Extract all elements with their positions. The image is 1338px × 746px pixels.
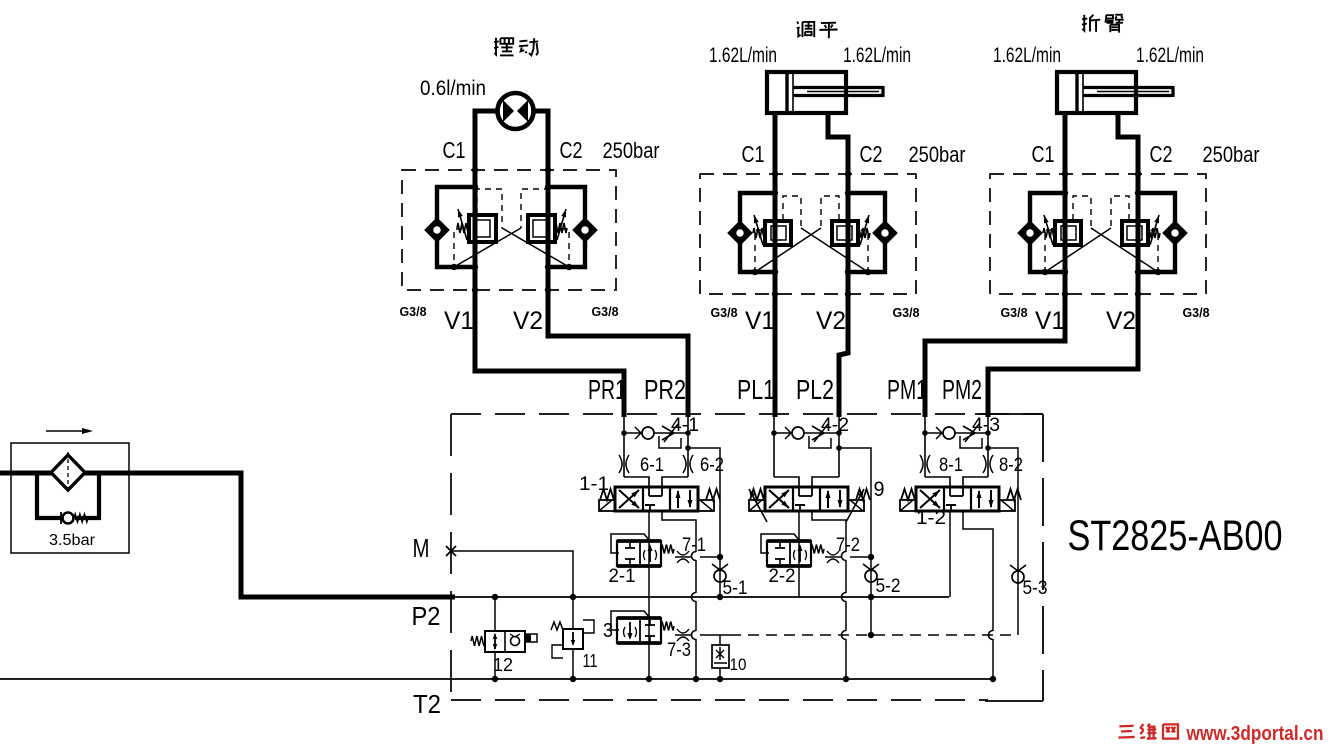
block 2 pilot passage dashed left inner	[783, 196, 801, 228]
main block dashed top edge	[451, 413, 1043, 415]
block 3 inner loop left	[1030, 193, 1065, 272]
block 2 pilot arrow right	[860, 215, 869, 245]
svg-text:8-1: 8-1	[939, 455, 963, 476]
pipe V2 to PM2	[988, 294, 1138, 417]
valve 9 proportional arrow right	[846, 489, 864, 522]
assembly 4-3 junction dots	[922, 430, 928, 436]
svg-text:1.62L/min: 1.62L/min	[709, 44, 777, 67]
valve 11 riser lines	[572, 597, 574, 629]
svg-text:G3/8: G3/8	[1001, 305, 1028, 320]
block 2 pilot cross line 2	[755, 228, 821, 272]
section 1 pilot passage dashed right outer	[561, 229, 569, 264]
main block solid right edge	[975, 413, 1043, 415]
pilot valve 11 body	[563, 629, 583, 649]
block 3 counterbalance cartridge left	[1055, 221, 1081, 245]
svg-text:5-1: 5-1	[723, 578, 748, 599]
svg-text:C1: C1	[742, 141, 765, 167]
PR1 feed line	[623, 417, 625, 477]
section 2 C2 pipe cylinder to block	[828, 113, 848, 174]
section 1 counterbalance block dashed enclosure	[402, 170, 616, 290]
block 2 pilot cross line 1	[801, 228, 868, 272]
PL1 feed line	[773, 417, 775, 477]
section 1 pilot arrow left	[458, 209, 467, 240]
svg-text:C2: C2	[860, 141, 883, 167]
valve 11 spring	[551, 622, 563, 630]
svg-text:PL1: PL1	[737, 374, 775, 405]
valve 2-2 pilot line	[761, 534, 800, 553]
relief valve of assembly 4-3	[955, 432, 988, 434]
cylinder 2 piston	[785, 72, 788, 113]
valve 1-1 parallel-arrows cell	[677, 491, 679, 508]
section 1 C1 main pipe	[473, 170, 478, 290]
filter enclosure box	[11, 443, 129, 553]
feed into valve 1-1 left	[624, 477, 649, 487]
svg-text:250bar: 250bar	[1203, 142, 1260, 167]
pressure valve 2-1 body	[617, 541, 661, 566]
section 1 pilot cross line 2	[454, 228, 521, 267]
check valve of assembly 4-2	[774, 432, 791, 434]
valve 1-2 parallel-arrows cell	[978, 491, 980, 508]
svg-text:PM2: PM2	[942, 374, 982, 405]
block 3 pilot passage dashed left inner	[1073, 196, 1091, 228]
svg-text:C2: C2	[1150, 141, 1173, 167]
check valve 5-1	[714, 570, 726, 582]
gauge line M to P2 gallery	[451, 551, 573, 597]
valve 1-2 right spring	[1007, 489, 1021, 500]
valve 12 double arrow	[494, 634, 496, 649]
svg-text:250bar: 250bar	[909, 142, 966, 167]
svg-text:7-3: 7-3	[667, 640, 691, 661]
throttle 7-1	[675, 556, 692, 558]
svg-text:1.62L/min: 1.62L/min	[1136, 44, 1204, 67]
block 2 spring right	[858, 228, 870, 238]
pipe V2 to PL2	[839, 294, 848, 417]
hydraulic motor	[498, 93, 534, 129]
valve 3 blocked cell marks	[645, 624, 655, 626]
directional control valve 1-2 body	[916, 487, 999, 511]
main block dashed bottom edge	[451, 699, 988, 701]
svg-text:C1: C1	[443, 137, 466, 163]
svg-text:PR1: PR1	[588, 374, 626, 405]
svg-text:PR2: PR2	[644, 374, 686, 405]
orifice 8-2	[983, 455, 986, 473]
valve 1-2 centre cell blocked ports	[949, 487, 951, 496]
valve 2-2 spring	[811, 545, 824, 554]
feed into valve 1-1 right	[662, 477, 688, 487]
section 1 C2 main pipe	[546, 170, 551, 290]
svg-text:M: M	[413, 533, 430, 563]
valve 2-1 blocked cell marks	[625, 547, 635, 549]
main block dashed left edge	[450, 414, 452, 700]
svg-text:P2: P2	[412, 601, 441, 631]
svg-text:G3/8: G3/8	[592, 304, 619, 319]
svg-text:G3/8: G3/8	[711, 305, 738, 320]
flow direction arrow	[46, 430, 88, 432]
block 3 pilot passage dashed left outer	[1045, 230, 1052, 269]
svg-text:11: 11	[583, 651, 598, 671]
label zhebi (Chinese: folding arm)	[1082, 15, 1084, 31]
filter bypass loop	[37, 473, 61, 518]
counterbalance valve block 2 dashed enclosure	[700, 174, 916, 294]
svg-text:G3/8: G3/8	[1183, 305, 1210, 320]
block 3 check valve left (diamond)	[1020, 223, 1040, 243]
valve 12 spring	[471, 636, 485, 646]
port M cross mark	[446, 546, 456, 556]
throttle 7-2	[825, 556, 842, 558]
bypass check valve 3.5bar	[63, 513, 74, 524]
block 3 pilot passage dashed right outer	[1151, 230, 1158, 269]
check valve of assembly 4-1	[624, 432, 641, 434]
svg-text:250bar: 250bar	[603, 138, 660, 163]
section 1 inner loop left	[437, 187, 475, 267]
valve 9 drain B with crossing jumps	[812, 511, 846, 552]
valve 1-2 left solenoid	[900, 500, 916, 511]
valve 1-1 right solenoid	[698, 500, 714, 511]
hydraulic cylinder 3 body	[1057, 72, 1136, 113]
valve 2-2 blocked cell marks	[775, 547, 785, 549]
svg-text:7-2: 7-2	[836, 535, 860, 556]
valve 12 riser lines	[494, 597, 496, 631]
svg-text:1.62L/min: 1.62L/min	[843, 44, 911, 67]
valve 9 centre cell blocked ports	[798, 487, 800, 496]
pipe V1 to PL1	[773, 294, 778, 417]
check valve of assembly 4-3	[925, 432, 942, 434]
valve 2-1 flow arrow cell	[649, 546, 651, 562]
check valve 5-2	[865, 570, 877, 582]
P2 pressure gallery	[455, 596, 949, 598]
svg-text:V2: V2	[1106, 307, 1136, 335]
block 2 pilot arrow left	[754, 215, 763, 245]
feed into valve 9 right	[812, 477, 839, 487]
svg-text:G3/8: G3/8	[400, 304, 427, 319]
valve 1-1 drain B with crossing jumps	[662, 511, 696, 552]
counterbalance valve block 3 dashed enclosure	[990, 174, 1206, 294]
svg-text:9: 9	[874, 478, 885, 501]
T2 return line	[0, 678, 995, 680]
svg-text:T2: T2	[413, 689, 441, 719]
svg-text:1-2: 1-2	[916, 508, 946, 529]
drain stub 5-2 to pilot gallery	[870, 597, 872, 635]
valve 9 right spring	[856, 489, 870, 500]
block 2 pilot passage dashed right inner	[821, 196, 839, 228]
orifice 6-1	[619, 455, 622, 473]
svg-text:3: 3	[603, 620, 613, 642]
block 3 pilot arrow left	[1044, 215, 1053, 245]
P2 riser to valve 1-2	[949, 511, 951, 597]
valve 9 left solenoid	[749, 500, 765, 511]
svg-text:6-1: 6-1	[640, 455, 664, 476]
svg-text:7-1: 7-1	[682, 535, 706, 556]
check valve 5-3	[1012, 571, 1024, 583]
block 2 spring left	[753, 228, 765, 238]
block 2 pilot passage dashed right outer	[861, 230, 868, 269]
svg-text:C1: C1	[1032, 141, 1055, 167]
section 3 C1 pipe cylinder to block	[1063, 113, 1068, 294]
valve 2-1 pilot line	[611, 534, 650, 553]
cylinder 3 piston	[1075, 72, 1078, 113]
svg-text:V2: V2	[816, 307, 846, 335]
cylinder 2 rod	[793, 86, 883, 89]
block 2 check valve right (diamond)	[875, 223, 895, 243]
svg-text:12: 12	[493, 655, 513, 675]
relief valve of assembly 4-2	[804, 432, 839, 434]
svg-text:5-3: 5-3	[1023, 578, 1048, 599]
svg-text:2-2: 2-2	[769, 566, 796, 587]
valve 12 solenoid	[525, 634, 537, 642]
svg-text:5-2: 5-2	[876, 576, 901, 597]
svg-text:www.3dportal.cn: www.3dportal.cn	[1186, 723, 1324, 745]
orifice 6-2	[683, 455, 686, 473]
valve 11 pilot flags	[552, 645, 563, 658]
block 3 pilot arrow right	[1150, 215, 1159, 245]
feed into valve 1-2 left	[925, 477, 950, 487]
svg-text:1.62L/min: 1.62L/min	[993, 44, 1061, 67]
PR2 feed line	[687, 417, 689, 477]
throttle 7-3	[675, 634, 692, 636]
block 2 counterbalance cartridge right	[832, 221, 858, 245]
PL2 feed line	[838, 417, 840, 477]
valve 1-1 crossed-arrows cell	[619, 490, 639, 508]
valve 9 drain A	[798, 511, 800, 597]
svg-text:V1: V1	[745, 307, 775, 335]
block 2 junction dots	[772, 190, 778, 196]
section 1 counterbalance cartridge left	[469, 215, 496, 242]
PM1 feed line	[924, 417, 926, 477]
svg-text:ST2825-AB00: ST2825-AB00	[1068, 512, 1283, 560]
pipe V1 to PR1	[475, 290, 624, 417]
pipe V1 to PM1	[925, 294, 1065, 417]
valve 1-2 left spring	[901, 489, 915, 500]
valve 1-1 left spring	[600, 489, 614, 500]
pressure valve 3 body	[617, 618, 661, 643]
pipe V2 to PR2	[548, 290, 688, 417]
orifice 8-1	[920, 455, 923, 473]
valve 1-1 right spring	[706, 489, 720, 500]
valve 1-1 centre cell blocked ports	[648, 487, 650, 496]
valve 9 left spring	[750, 489, 764, 500]
svg-text:4-1: 4-1	[671, 415, 699, 436]
pipe after filter to P2	[84, 473, 455, 597]
relief valve of assembly 4-1	[654, 432, 688, 434]
pilot branch line to check 5-1	[688, 448, 720, 597]
valve 11 arrow	[572, 632, 574, 644]
svg-text:3.5bar: 3.5bar	[49, 532, 96, 549]
svg-text:V2: V2	[513, 307, 543, 335]
valve 3 spring	[661, 622, 674, 631]
valve 9 proportional arrow left	[749, 489, 767, 522]
svg-text:V1: V1	[1035, 307, 1065, 335]
block 3 spring left	[1043, 228, 1055, 238]
tank gallery junction dots	[646, 676, 652, 682]
valve 3 pilot line	[611, 611, 650, 630]
assembly 4-1 junction dots	[621, 430, 627, 436]
block 3 spring right	[1148, 228, 1160, 238]
svg-text:PL2: PL2	[796, 374, 834, 405]
section 1 check valve right (diamond)	[575, 220, 595, 240]
valve 9 crossed-arrows cell	[769, 490, 789, 508]
block 2 pilot passage dashed left outer	[755, 230, 762, 269]
PM2 feed line	[987, 417, 989, 477]
assembly 4-2 junction dots	[771, 430, 777, 436]
directional control valve 1-1 body	[615, 487, 698, 511]
block 2 check valve left (diamond)	[730, 223, 750, 243]
svg-text:10: 10	[730, 655, 747, 674]
svg-text:0.6l/min: 0.6l/min	[420, 77, 486, 100]
valve 1-2 drain to tank	[963, 511, 993, 631]
svg-text:8-2: 8-2	[999, 455, 1023, 476]
valve 1-2 crossed-arrows cell	[920, 490, 940, 508]
block 3 junction dots	[1062, 190, 1068, 196]
svg-text:V1: V1	[444, 307, 474, 335]
section 1 pilot arrow right	[557, 209, 566, 240]
label tiaoping (Chinese: leveling)	[797, 22, 798, 24]
section 1 counterbalance cartridge right	[528, 215, 555, 242]
pilot drain dashed gallery	[730, 634, 1014, 636]
block 3 pilot cross line 2	[1045, 228, 1111, 272]
section 1 spring right	[555, 223, 567, 233]
svg-text:C2: C2	[560, 137, 583, 163]
svg-text:4-2: 4-2	[821, 415, 849, 436]
valve 2-2 flow arrow cell	[799, 546, 801, 562]
feed into valve 1-2 right	[963, 477, 988, 487]
directional control valve 9 body	[765, 487, 848, 511]
block 2 inner loop right	[848, 193, 885, 272]
valve 1-2 right solenoid	[999, 500, 1015, 511]
solenoid valve 12 body	[485, 631, 525, 652]
pilot branch line to check 5-2	[839, 448, 871, 597]
section 1 junction dots	[472, 184, 478, 190]
valve 12 ball check cell	[511, 637, 520, 646]
pressure valve 2-2 body	[767, 541, 811, 566]
orifice plug 10	[712, 645, 729, 668]
block 2 counterbalance cartridge left	[765, 221, 791, 245]
svg-text:1-1: 1-1	[579, 474, 609, 495]
valve 9 parallel-arrows cell	[827, 491, 829, 508]
block 3 counterbalance cartridge right	[1122, 221, 1148, 245]
hydraulic cylinder 2 body	[767, 72, 846, 113]
block 3 check valve right (diamond)	[1165, 223, 1185, 243]
section 1 pilot passage dashed right inner	[521, 189, 547, 228]
block 3 inner loop right	[1138, 193, 1175, 272]
section 1 inner loop right	[548, 187, 585, 267]
watermark sanweiwang (Chinese: 3D portal) red	[1119, 725, 1133, 728]
section 1 check valve left (diamond)	[427, 220, 447, 240]
svg-text:2-1: 2-1	[609, 566, 636, 587]
svg-text:G3/8: G3/8	[893, 305, 920, 320]
block 3 pilot cross line 1	[1091, 228, 1158, 272]
valve 1-1 left solenoid	[599, 500, 615, 511]
valve 2-1 spring	[661, 545, 674, 554]
pilot branch line to check 5-3	[988, 448, 1018, 635]
valve 9 right solenoid	[848, 500, 864, 511]
valve 1-1 drain A	[648, 511, 650, 679]
section 1 pilot cross line 1	[502, 228, 569, 267]
swing motor supply pipes	[475, 111, 497, 170]
inlet pipe from edge	[0, 471, 52, 476]
block 2 inner loop left	[740, 193, 775, 272]
section 1 pilot passage dashed left outer	[454, 229, 462, 264]
section 1 spring left	[457, 223, 469, 233]
filter element (diamond)	[51, 455, 85, 490]
section 2 C1 pipe cylinder to block	[773, 113, 778, 294]
svg-text:PM1: PM1	[887, 374, 927, 405]
cylinder 3 rod	[1083, 86, 1173, 89]
section 3 C2 pipe cylinder to block	[1118, 113, 1138, 174]
valve 3 flow arrow cell	[629, 622, 631, 638]
feed into valve 9 left	[774, 477, 799, 487]
section 1 pilot passage dashed left inner	[477, 189, 502, 228]
label baidong (Chinese: swing)	[494, 38, 496, 55]
block 3 pilot passage dashed right inner	[1111, 196, 1129, 228]
